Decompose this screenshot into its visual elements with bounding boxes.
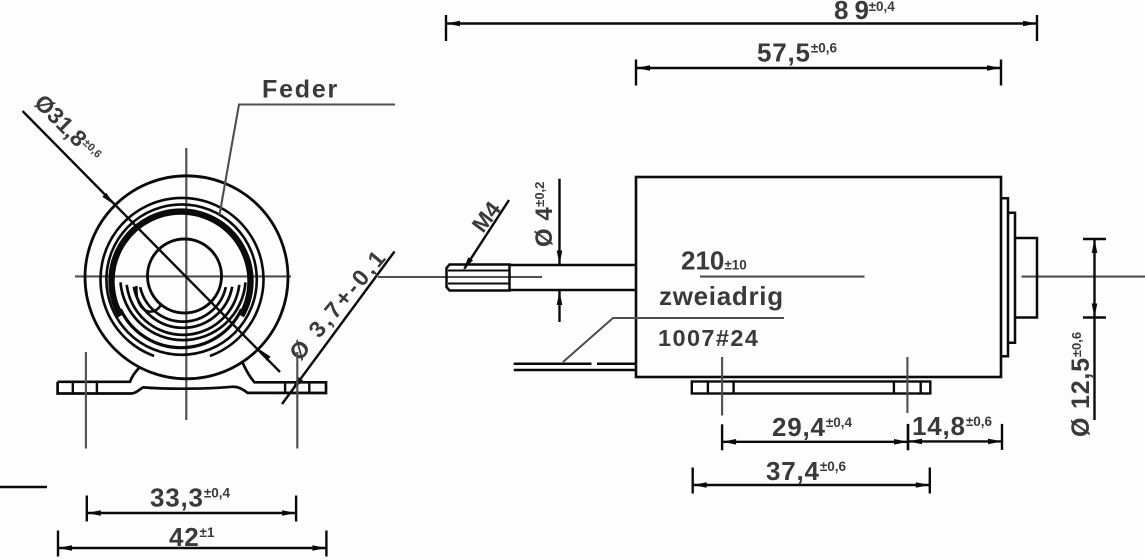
dimension 14.8 [908, 424, 1002, 450]
tick dia12.5 bottom [1083, 316, 1106, 318]
front view horizontal centerline [75, 275, 291, 277]
plate hole left [707, 382, 709, 394]
label dia31.8 [29, 89, 107, 167]
dimension 57.5 [636, 60, 1001, 86]
svg-text:Ø 4±0,2: Ø 4±0,2 [531, 182, 558, 247]
axis centerline left [378, 276, 542, 278]
step 1 right [1001, 198, 1008, 356]
spring bottom coil 3 [127, 285, 240, 335]
dimension line dia31.8 [23, 111, 281, 372]
svg-text:210±10: 210±10 [681, 246, 747, 276]
svg-text:1007#24: 1007#24 [658, 325, 759, 351]
dimension line dia4 upper [558, 179, 560, 265]
dimension line dia12.5 [1093, 239, 1095, 318]
svg-text:Feder: Feder [262, 76, 339, 104]
solenoid body outer circle [85, 176, 288, 379]
arrow dia31.8 upper [102, 193, 114, 205]
plunger shaft [510, 264, 637, 267]
svg-text:Ø 3,7+-0,1: Ø 3,7+-0,1 [284, 243, 392, 365]
mounting bracket outline [58, 362, 326, 393]
svg-text:29,4±0,4: 29,4±0,4 [772, 412, 852, 442]
extension line left foot hole [85, 352, 87, 449]
dimension line dia4 lower [558, 291, 560, 322]
dimension 33.3 [87, 496, 296, 522]
spring bottom coil 4 [121, 282, 246, 340]
solenoid body side view [636, 177, 1001, 377]
dimension 37.4 [693, 468, 930, 494]
axis centerline middle [700, 276, 865, 278]
arrow dia12.5 top [1092, 239, 1098, 253]
extension line plate hole right [906, 357, 908, 413]
label dia4 [531, 182, 558, 247]
spring thick coil ring [111, 212, 250, 316]
arrow dia4 upper [557, 251, 563, 265]
svg-text:M4: M4 [467, 197, 506, 237]
spring wire end hook [136, 286, 161, 312]
mounting plate [692, 382, 931, 394]
extension line plate hole left [721, 357, 723, 416]
dimension 42 [58, 531, 326, 557]
wire upper [514, 363, 592, 366]
svg-text:14,8±0,6: 14,8±0,6 [912, 411, 992, 441]
arrow dia31.8 lower [259, 349, 271, 361]
plunger circle [148, 239, 222, 313]
arrow dia12.5 bottom [1092, 304, 1098, 318]
spring outermost coil [100, 198, 263, 356]
axis centerline right [1022, 276, 1145, 278]
svg-text:Ø31,8±0,6: Ø31,8±0,6 [29, 89, 107, 167]
arrow dia4 lower [557, 291, 563, 305]
end cylinder [1015, 238, 1037, 318]
label dia3.7 [284, 243, 392, 365]
label M4 [467, 197, 506, 237]
svg-text:±0,4: ±0,4 [869, 0, 896, 14]
wire lower [514, 369, 636, 372]
extension line right foot hole [296, 352, 298, 449]
spring bottom coil 1 [140, 287, 226, 321]
label dia12.5 [1067, 332, 1095, 437]
arrow M4 [463, 257, 473, 270]
frame fragment line [0, 486, 47, 488]
bracket left foot hole [72, 382, 74, 394]
dimension 89 [446, 15, 1037, 41]
bracket right foot hole [284, 382, 286, 393]
spring coil circle 2 [106, 204, 256, 354]
svg-text:33,3±0,4: 33,3±0,4 [150, 483, 230, 513]
dimension 29.4 [722, 424, 908, 450]
tick dia12.5 top [1083, 238, 1106, 240]
spring bottom coil 2 [134, 287, 232, 328]
step 2 right [1008, 213, 1015, 343]
plate hole right [893, 382, 895, 394]
svg-text:Ø 12,5±0,6: Ø 12,5±0,6 [1067, 332, 1095, 437]
svg-text:57,5±0,6: 57,5±0,6 [757, 38, 837, 68]
svg-text:37,4±0,6: 37,4±0,6 [766, 456, 846, 486]
leader M4 [465, 200, 510, 269]
leader wire 1007#24 [563, 318, 784, 362]
threaded rod end M4 [447, 265, 510, 291]
arrow dia3.7 [291, 377, 303, 392]
dimension line dia3.7 [282, 252, 395, 405]
front view vertical centerline [185, 148, 187, 420]
svg-text:zweiadrig: zweiadrig [659, 281, 784, 311]
leader Feder [220, 105, 396, 216]
thread minor lines [448, 270, 510, 272]
